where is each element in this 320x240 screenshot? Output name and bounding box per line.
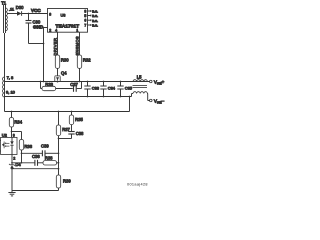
- capacitor C37: [73, 85, 75, 91]
- rail C (feedback sense rail): [5, 111, 130, 113]
- svg-text:8: 8: [49, 12, 51, 16]
- wire GND vertical down to rail A: [43, 28, 45, 82]
- pin 3 n.c.: [84, 9, 98, 13]
- svg-text:R35: R35: [75, 117, 83, 122]
- svg-text:L5: L5: [137, 74, 142, 79]
- pin 7 n.c.: [84, 23, 98, 27]
- wire SNSMOS pin1 down: [79, 32, 81, 55]
- svg-text:U3: U3: [61, 13, 66, 18]
- snubber drop: [40, 82, 42, 89]
- node R34 / opto / R36: [11, 131, 13, 133]
- diode D30: [17, 11, 22, 16]
- transformer T1: [3, 5, 11, 112]
- capacitor C34: [100, 81, 106, 98]
- svg-text:n.c.: n.c.: [92, 10, 98, 14]
- svg-text:C35: C35: [125, 85, 133, 90]
- resistor R30: [55, 55, 59, 68]
- svg-text:DRIVER: DRIVER: [52, 38, 57, 56]
- bottom return wire: [12, 190, 59, 192]
- zener diode D4: [9, 163, 15, 169]
- resistor R38: [43, 161, 57, 165]
- svg-text:n.c.: n.c.: [92, 14, 98, 18]
- wire D4 anode down to ground: [11, 169, 13, 193]
- wire D4 anode branch to R39 top: [12, 168, 59, 170]
- resistor R35: [71, 112, 73, 116]
- svg-text:R38: R38: [45, 155, 53, 160]
- svg-text:3: 3: [13, 134, 15, 138]
- svg-text:7: 7: [84, 23, 86, 27]
- wire rail B to rail C tap: [129, 97, 131, 112]
- svg-text:C36: C36: [32, 154, 40, 159]
- terminal Vout-: [147, 94, 149, 101]
- svg-text:R36: R36: [24, 144, 32, 149]
- svg-text:n.c.: n.c.: [92, 19, 98, 23]
- svg-text:C39: C39: [41, 144, 49, 149]
- svg-text:U2: U2: [2, 132, 8, 137]
- wire R32 down to rail A: [79, 68, 81, 81]
- svg-text:C33: C33: [92, 85, 100, 90]
- resistor R37: [58, 112, 60, 126]
- wire opto pin2 down: [11, 155, 13, 163]
- rail A (7,8 net): [5, 81, 152, 83]
- svg-text:R32: R32: [83, 58, 91, 63]
- capacitor C36: [34, 160, 36, 166]
- svg-text:D4: D4: [15, 162, 21, 167]
- svg-text:2: 2: [13, 156, 15, 160]
- wire T1 pin11 to D30: [7, 13, 17, 15]
- resistor R36: [21, 132, 23, 140]
- svg-text:5: 5: [84, 14, 86, 18]
- svg-text:Vout−: Vout−: [154, 99, 165, 105]
- svg-text:11: 11: [10, 7, 15, 12]
- wire C38 bottom to divider: [59, 138, 72, 140]
- svg-text:Q4: Q4: [61, 71, 67, 76]
- op-amp U3 TEA1791T box: [48, 9, 88, 33]
- svg-text:R34: R34: [14, 120, 22, 125]
- svg-text:GND: GND: [33, 24, 44, 29]
- capacitor C30: [26, 14, 32, 44]
- transistor Q4: [55, 76, 60, 82]
- pin 5 n.c.: [84, 14, 98, 18]
- svg-text:C38: C38: [76, 131, 84, 136]
- inductor L5 common-mode choke: [132, 80, 148, 97]
- wire D30 to VCC pin8: [22, 13, 48, 15]
- capacitor C35: [117, 81, 123, 98]
- resistor R34: [11, 112, 13, 118]
- pin 6 n.c.: [84, 19, 98, 23]
- svg-text:1: 1: [76, 28, 78, 32]
- svg-text:7, 8: 7, 8: [7, 75, 14, 80]
- svg-text:T1: T1: [1, 0, 7, 5]
- terminal Vout+: [147, 81, 149, 83]
- opto-coupler U2: [1, 137, 17, 154]
- svg-text:2: 2: [49, 28, 51, 32]
- svg-text:D30: D30: [16, 5, 24, 10]
- series C36 + R38 branch: [12, 162, 35, 164]
- rail B (9,10 net): [5, 96, 132, 98]
- wire C30 bottom to GND net: [29, 43, 44, 45]
- svg-text:3: 3: [84, 9, 86, 13]
- svg-text:R30: R30: [61, 58, 69, 63]
- svg-text:001aaj428: 001aaj428: [127, 183, 148, 187]
- wire GND pin2 to vertical: [44, 27, 48, 29]
- wire DRIVER pin4 down: [57, 32, 59, 55]
- capacitor C38: [68, 131, 74, 133]
- resistor R39: [56, 175, 60, 188]
- svg-text:SNSMOS: SNSMOS: [74, 36, 79, 55]
- svg-text:R33: R33: [45, 82, 53, 87]
- resistor R33: [41, 88, 43, 90]
- svg-text:6: 6: [84, 19, 86, 23]
- ground: [8, 193, 15, 196]
- svg-text:C34: C34: [108, 85, 116, 90]
- svg-text:Vout+: Vout+: [154, 80, 165, 86]
- svg-text:n.c.: n.c.: [92, 24, 98, 28]
- svg-text:C37: C37: [70, 82, 78, 87]
- svg-text:9, 10: 9, 10: [6, 90, 16, 95]
- capacitor C39 branch: [22, 152, 43, 154]
- svg-text:R39: R39: [63, 179, 71, 184]
- svg-text:VCC: VCC: [31, 8, 41, 13]
- resistor R32: [77, 55, 81, 68]
- wire R30 to Q4 gate: [57, 68, 59, 75]
- node VCC junction: [28, 13, 30, 15]
- capacitor C33: [84, 81, 90, 98]
- svg-text:4: 4: [55, 28, 57, 32]
